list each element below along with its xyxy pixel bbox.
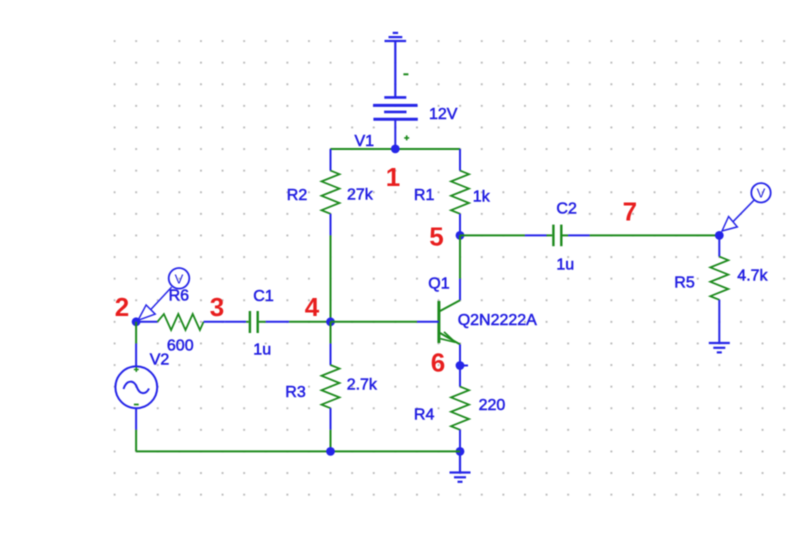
ground (below R4): [450, 451, 471, 481]
battery V1: [373, 97, 418, 149]
svg-text:R3: R3: [285, 384, 306, 401]
svg-text:1k: 1k: [473, 189, 491, 206]
svg-text:R6: R6: [169, 288, 190, 305]
resistor R2: [322, 149, 340, 235]
svg-text:7: 7: [623, 197, 637, 227]
transistor Q1: [417, 279, 460, 387]
svg-text:R1: R1: [414, 187, 435, 204]
svg-text:1u: 1u: [556, 257, 574, 274]
wire node 4 to base: [331, 321, 417, 323]
wire R3 to bottom rail: [330, 430, 332, 452]
wire node 4 to R3: [330, 322, 332, 344]
junction node 5: [456, 231, 465, 240]
resistor R5: [710, 235, 728, 342]
svg-text:V: V: [757, 186, 766, 201]
svg-text:V1: V1: [355, 133, 375, 150]
V1 plus mark: [404, 135, 409, 140]
wire bottom rail: [136, 450, 460, 452]
ground (power ground above V1): [385, 33, 407, 97]
voltage probe at node 7: [722, 183, 771, 231]
svg-text:Q1: Q1: [428, 276, 449, 293]
svg-text:27k: 27k: [347, 187, 374, 204]
junction node 4: [326, 317, 335, 326]
wire stub at node 6: [460, 365, 468, 367]
junction node 1: [391, 145, 400, 154]
voltage probe at node 2: [138, 268, 189, 320]
junction node 6: [456, 361, 465, 370]
junction R3 bottom: [326, 447, 335, 456]
svg-text:1: 1: [386, 162, 400, 192]
svg-text:2: 2: [115, 292, 129, 322]
wire top rail: [331, 148, 461, 150]
svg-text:2.7k: 2.7k: [347, 377, 378, 394]
junction node 2: [132, 317, 141, 326]
wire node 5 to collector: [459, 235, 461, 278]
ground (below R5): [709, 343, 730, 352]
resistor R6: [136, 314, 225, 330]
svg-text:1u: 1u: [253, 342, 271, 359]
svg-text:R4: R4: [414, 407, 435, 424]
junction R4 bottom: [456, 447, 465, 456]
capacitor C2: [525, 225, 590, 247]
resistor R3: [322, 343, 340, 429]
svg-text:5: 5: [429, 222, 443, 252]
svg-text:R2: R2: [287, 187, 308, 204]
svg-text:C2: C2: [556, 201, 577, 218]
wire V2 to bottom rail: [135, 430, 137, 452]
wire R2 to node 4: [330, 235, 332, 321]
svg-text:12V: 12V: [429, 106, 458, 123]
svg-text:4: 4: [305, 292, 320, 322]
capacitor C1: [225, 311, 289, 333]
svg-text:6: 6: [431, 348, 445, 378]
svg-text:R5: R5: [674, 275, 695, 292]
svg-text:V: V: [175, 271, 184, 286]
wire node 5 to C2: [460, 234, 525, 236]
svg-text:4.7k: 4.7k: [737, 268, 768, 285]
svg-text:Q2N2222A: Q2N2222A: [458, 312, 537, 329]
junction node 7: [715, 231, 724, 240]
wire C2 to node 7: [590, 234, 720, 236]
wire C1 to node 4: [289, 321, 330, 323]
resistor R4: [451, 387, 469, 452]
svg-text:C1: C1: [253, 288, 274, 305]
wire node 2 to V2: [135, 322, 137, 344]
svg-text:600: 600: [167, 338, 194, 355]
resistor R1: [451, 149, 469, 235]
svg-text:220: 220: [479, 397, 506, 414]
svg-text:3: 3: [210, 292, 224, 322]
source V2: [115, 343, 157, 429]
svg-text:V2: V2: [150, 352, 170, 369]
V1 minus mark: [403, 73, 408, 75]
